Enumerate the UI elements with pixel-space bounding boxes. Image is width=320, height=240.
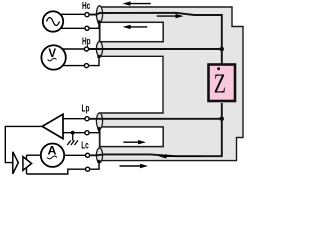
node: Hp shield to ellipse xyxy=(97,55,101,59)
arrow: window H2 shield current (right) xyxy=(123,140,146,144)
coax end cap ellipse Lc xyxy=(96,148,102,163)
wire: ammeter to Lc hot terminal xyxy=(64,154,85,156)
op-amp (auto-balancing bridge amplifier) xyxy=(42,114,63,138)
svg-text:Z: Z xyxy=(214,70,226,100)
wire: amp input to Lp hot terminal xyxy=(63,118,85,120)
shield/guard gray region (outer loop) xyxy=(100,7,244,161)
buffer wedge symbol xyxy=(13,152,18,174)
node: Hp joins vertical conductor xyxy=(219,47,224,52)
arrow: Lc center conductor current (left) xyxy=(159,154,202,158)
terminal Lc hot xyxy=(86,153,90,157)
terminal Lp shield xyxy=(85,131,89,135)
wire: Lc shield terminal to coax shield xyxy=(90,162,99,170)
node: Hc shield to ellipse xyxy=(97,20,101,24)
terminal Lp hot xyxy=(85,117,89,121)
label Hc xyxy=(82,0,91,12)
terminal Lc shield xyxy=(86,167,90,171)
wire: Hc shield terminal to coax shield xyxy=(90,22,100,28)
ammeter xyxy=(41,144,64,167)
node: ground tap xyxy=(71,131,75,135)
wire: node to ammeter xyxy=(27,154,41,156)
coax end cap ellipse Lp xyxy=(96,113,102,129)
wire: Hp shield terminal to coax shield xyxy=(89,57,99,66)
svg-text:Hc: Hc xyxy=(82,0,91,12)
node: Lp joins vertical conductor xyxy=(219,117,224,122)
oscillator (sine source) xyxy=(43,11,63,31)
Lp center conductor xyxy=(90,118,222,120)
wire: voltmeter to Hp hot terminal xyxy=(62,48,84,50)
arrow: window H1 shield current (left) xyxy=(123,25,148,29)
arrow: Hc center conductor current (right) xyxy=(157,14,184,18)
wire: Lp shield terminal to coax shield xyxy=(90,129,100,133)
arrow: shield current bottom (right) xyxy=(120,164,149,168)
ground xyxy=(67,133,78,145)
wire: Lc shield return xyxy=(27,169,86,174)
DUT impedance Z box xyxy=(209,65,236,102)
terminal Hc hot xyxy=(85,13,89,17)
terminal Hp hot xyxy=(84,47,88,51)
label Lc xyxy=(81,139,89,151)
wire: oscillator to Hc shield terminal xyxy=(61,27,85,29)
label Lp xyxy=(82,102,90,114)
wire: voltmeter to Hp shield terminal xyxy=(62,65,84,67)
label Hp xyxy=(82,35,91,47)
terminal Hc shield xyxy=(85,26,89,30)
svg-text:Lp: Lp xyxy=(82,102,90,114)
svg-text:Lc: Lc xyxy=(81,139,89,151)
arrow: shield current top (left) xyxy=(123,1,151,5)
wire: oscillator to Hc hot terminal xyxy=(61,13,85,15)
window H2 (white cutout between Lp and Lc coax) xyxy=(100,127,163,147)
wire: node vertical xyxy=(26,155,28,174)
wire: amp output loop xyxy=(5,126,42,162)
Lc center conductor xyxy=(90,103,222,156)
Hc center conductor xyxy=(90,13,222,65)
voltmeter xyxy=(41,45,65,69)
coax end cap ellipse Hp xyxy=(96,42,102,57)
window H1 (white cutout between Hc and Hp coax) xyxy=(100,22,163,41)
Hp center conductor xyxy=(89,48,222,50)
coax end cap ellipse Hc xyxy=(96,6,102,23)
terminal Hp shield xyxy=(84,64,88,68)
buffer small triangle xyxy=(23,157,32,171)
node: Lc shield to ellipse xyxy=(97,160,101,164)
svg-text:Hp: Hp xyxy=(82,35,91,47)
wire: amp input to Lp shield terminal xyxy=(63,132,85,134)
node: Lp shield to ellipse xyxy=(97,127,101,131)
